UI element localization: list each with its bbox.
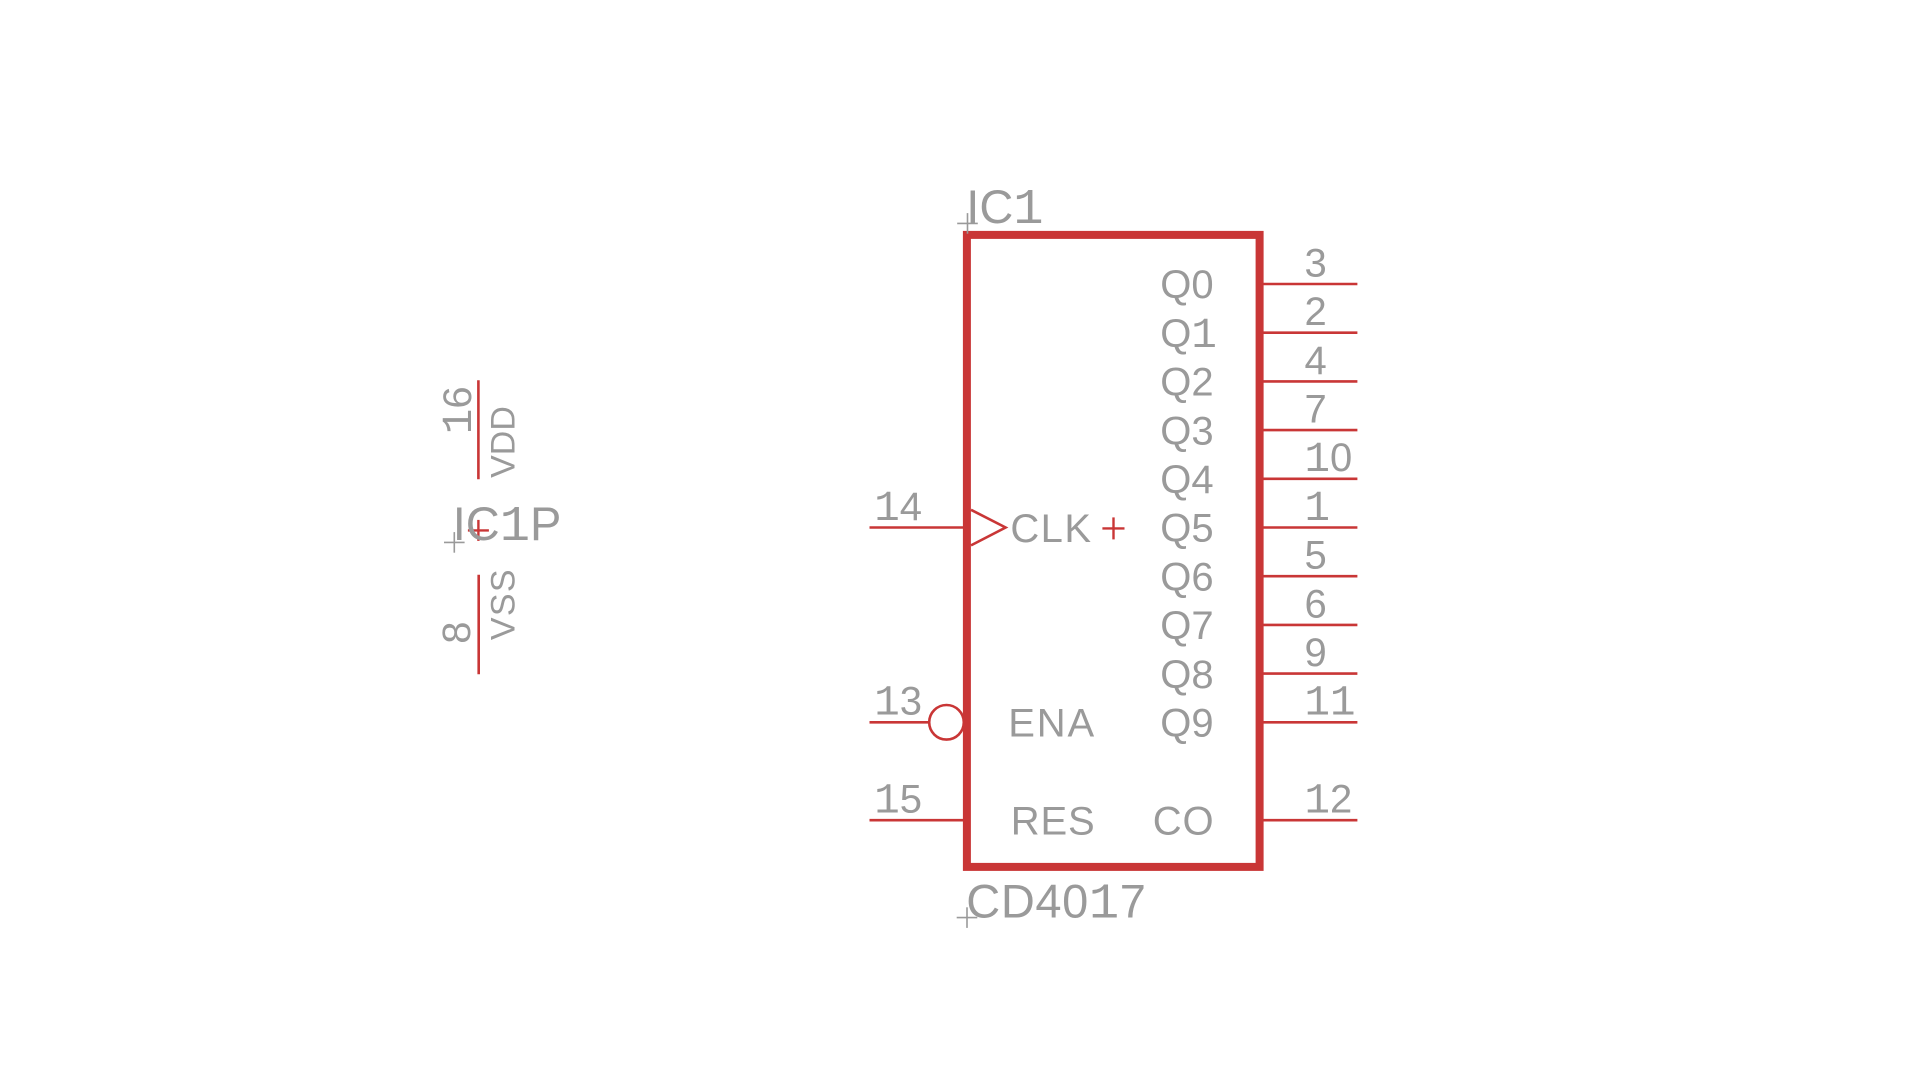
svg-text:Q0: Q0 [1160,263,1213,307]
svg-text:5: 5 [1305,534,1327,578]
pin 14 wire (CLK) [870,526,967,529]
svg-text:16: 16 [436,386,484,434]
svg-text:12: 12 [1305,778,1353,826]
svg-text:VDD: VDD [485,406,523,478]
svg-text:2: 2 [1305,290,1327,334]
svg-text:CLK: CLK [1010,507,1092,551]
pin 6 wire (Q7) [1260,624,1358,627]
pin 13 wire (ENA) [870,721,930,724]
IC1P text anchor cross [444,532,465,553]
pin 9 wire (Q8) [1260,672,1358,675]
pin 1 wire (Q5) [1260,526,1358,529]
svg-text:14: 14 [874,485,922,533]
svg-text:Q6: Q6 [1160,555,1213,599]
pin 11 wire (Q9) [1260,721,1358,724]
svg-text:Q3: Q3 [1160,409,1213,453]
pin 8 wire (VSS, pointing down) [477,575,480,675]
IC1P part origin cross (red plus) [468,520,489,541]
svg-text:RES: RES [1011,799,1096,843]
pin 15 wire (RES) [870,819,967,822]
svg-text:7: 7 [1305,388,1327,432]
svg-text:Q9: Q9 [1160,702,1213,746]
svg-text:CO: CO [1153,799,1215,843]
svg-text:11: 11 [1305,680,1356,728]
IC1 symbol origin cross (red plus) [1102,517,1124,539]
pin 2 wire (Q1) [1260,331,1358,334]
pin 12 wire (CO) [1260,819,1358,822]
svg-text:Q2: Q2 [1160,361,1213,405]
pin 7 wire (Q3) [1260,429,1358,432]
pin 10 wire (Q4) [1260,477,1358,480]
IC1 text anchor cross [957,213,978,234]
svg-text:3: 3 [1305,241,1327,285]
pin 16 wire (VDD, pointing up) [477,380,480,479]
svg-text:9: 9 [1305,631,1327,675]
pin 4 wire (Q2) [1260,380,1358,383]
svg-text:6: 6 [1305,582,1327,626]
svg-text:IC1: IC1 [966,180,1043,239]
clock edge triangle on CLK input [971,510,1006,546]
pin 5 wire (Q6) [1260,575,1358,578]
svg-text:15: 15 [874,778,922,826]
svg-text:Q8: Q8 [1160,653,1213,697]
svg-text:1: 1 [1305,485,1331,533]
IC U1 body (CD4017 counter symbol box) [967,235,1260,867]
svg-text:Q7: Q7 [1160,604,1213,648]
svg-text:13: 13 [874,680,922,728]
svg-text:Q5: Q5 [1160,507,1213,551]
svg-text:8: 8 [435,622,479,644]
svg-text:VSS: VSS [485,568,523,640]
svg-text:4: 4 [1305,339,1327,383]
pin 3 wire (Q0) [1260,283,1358,286]
svg-text:10: 10 [1305,436,1353,484]
svg-text:CD4017: CD4017 [966,874,1146,933]
svg-text:Q1: Q1 [1160,312,1217,360]
pin 13 inversion bubble [929,705,964,740]
svg-text:ENA: ENA [1008,702,1096,746]
svg-text:IC1P: IC1P [453,497,562,556]
CD4017 text anchor cross [957,907,978,928]
svg-text:Q4: Q4 [1160,458,1213,502]
